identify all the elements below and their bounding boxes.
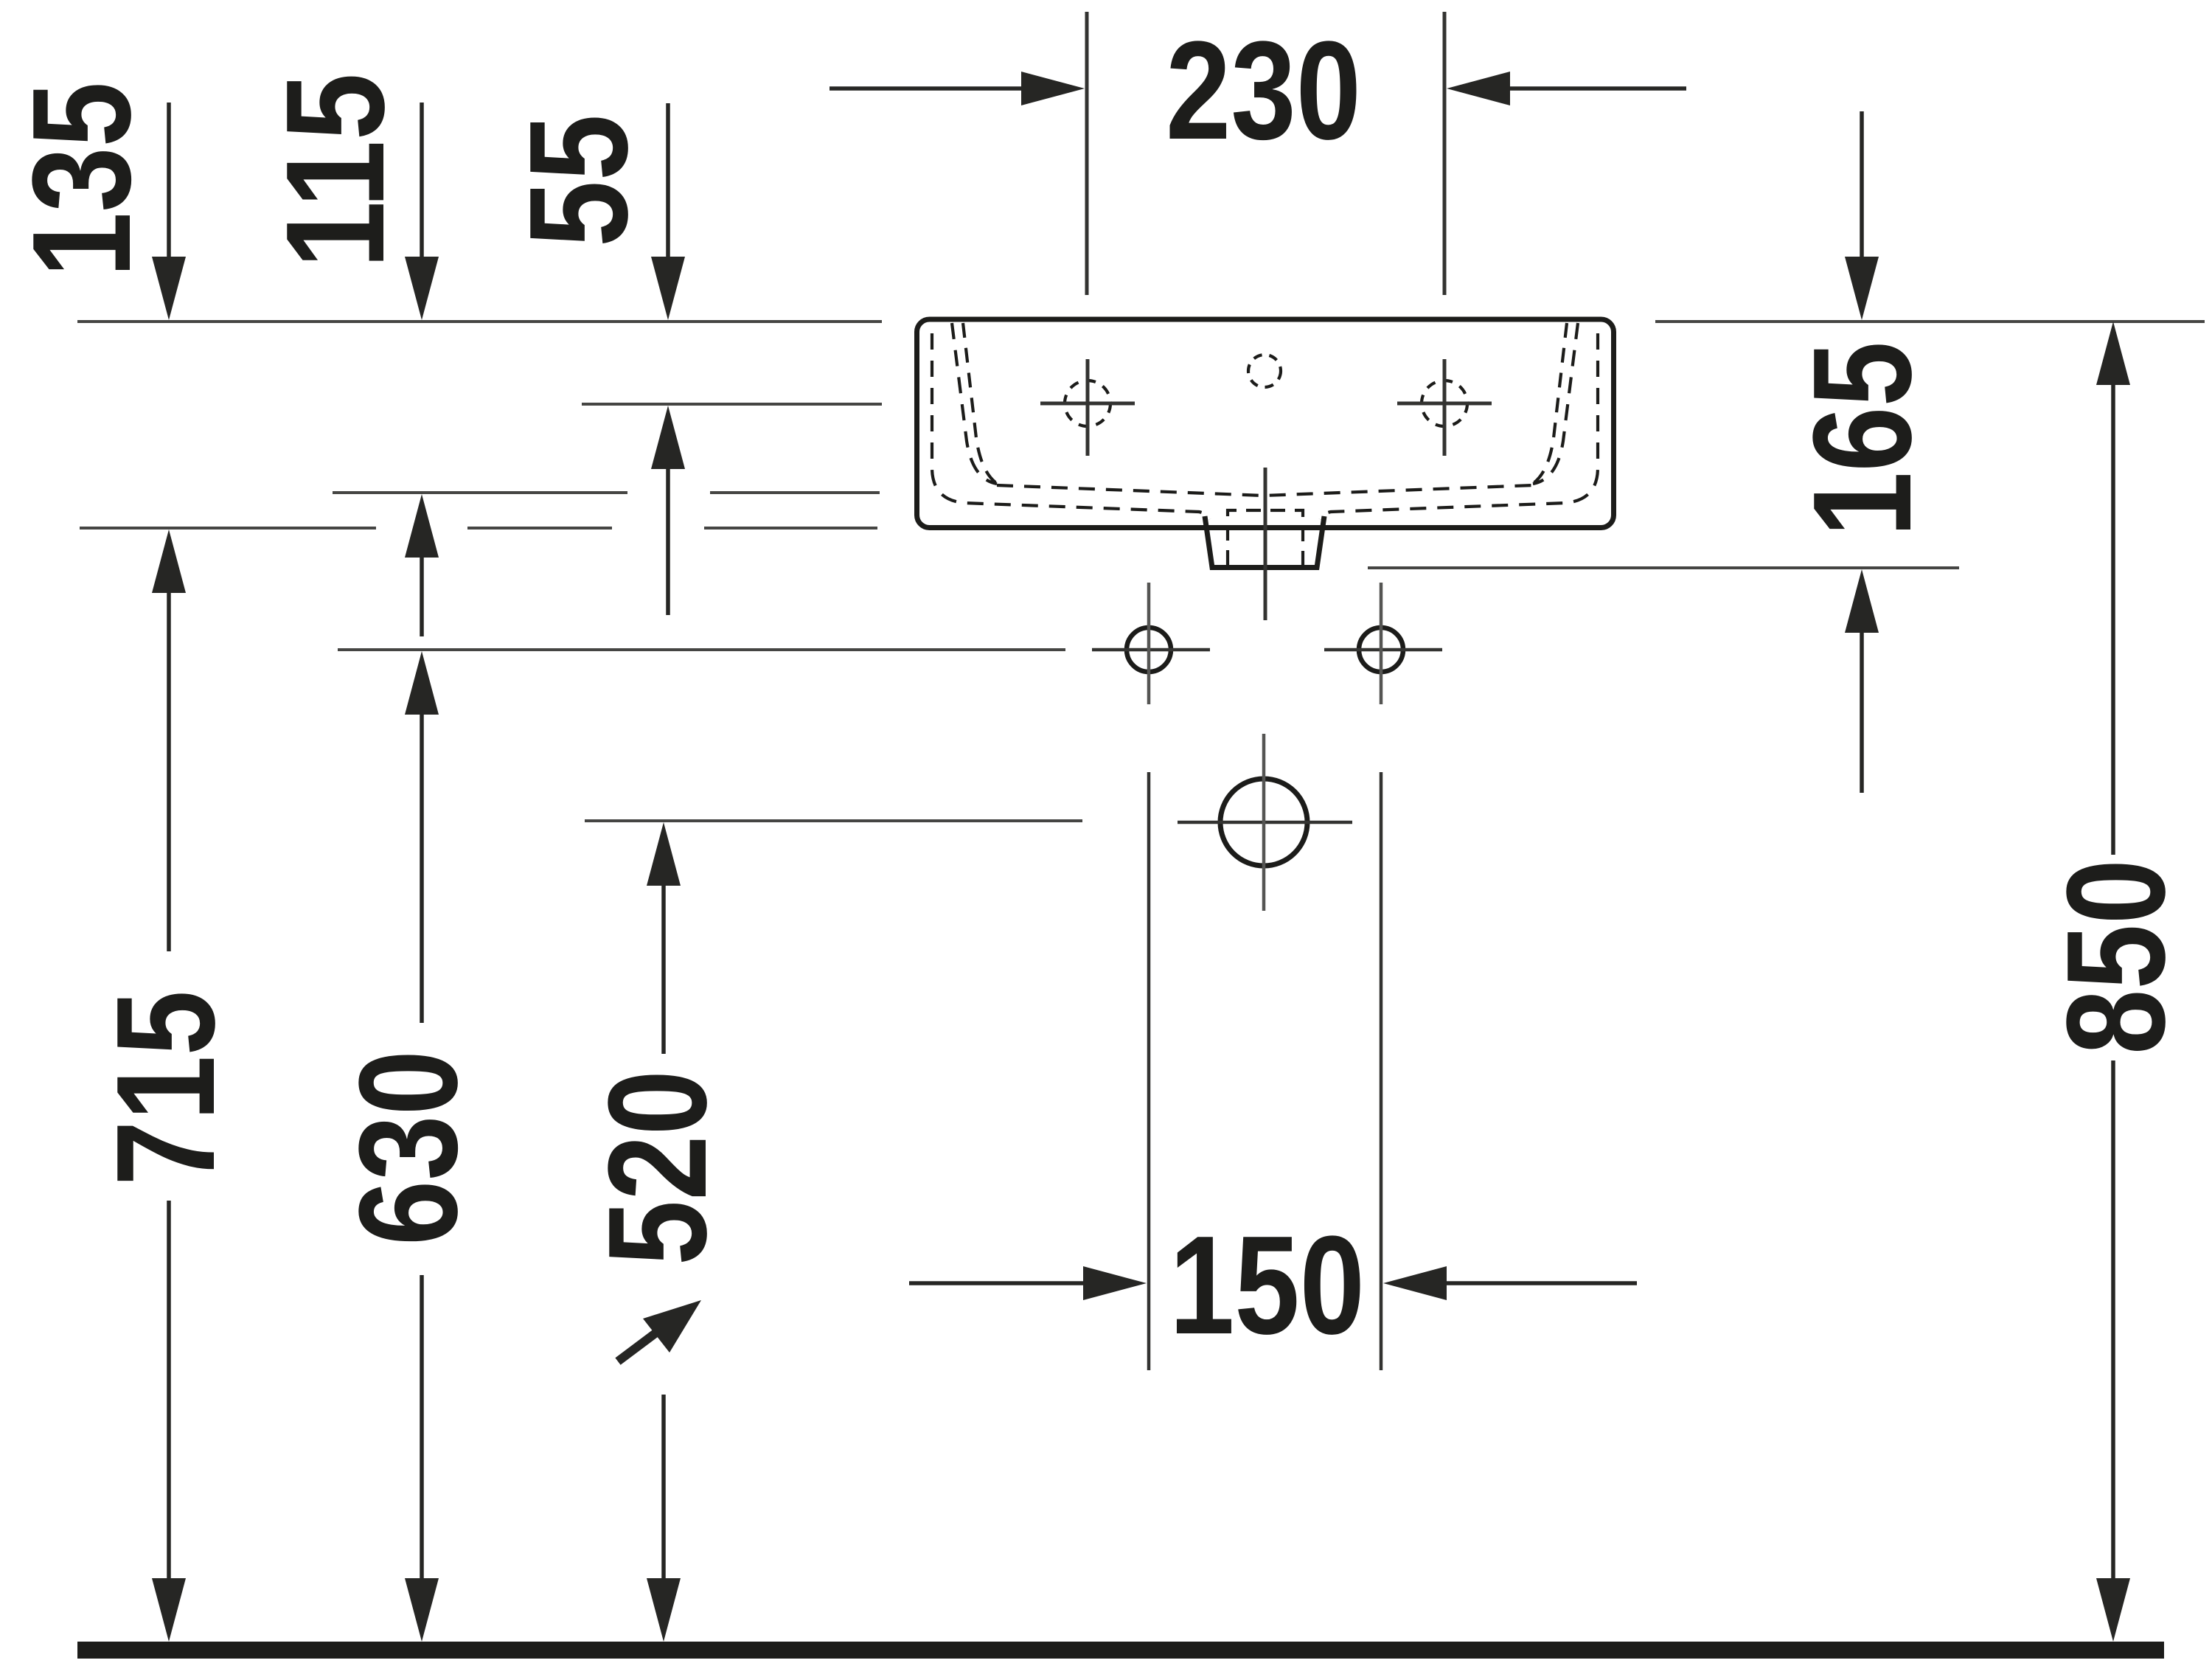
dashed drain pipe inside sleeve: [1228, 510, 1303, 565]
dim 150: right extension line: [1380, 772, 1383, 1370]
dim 115: top down-arrow: [405, 257, 439, 320]
overflow hole dashed circle: [1248, 355, 1281, 387]
dim 230: left arrow: [1021, 72, 1085, 105]
dim 115: bottom up-arrow: [405, 494, 439, 558]
dim 630: dimension line, up-arrow at mounting-hole line, down-arrow at floor: [405, 651, 439, 715]
drain bottom extension line (165 dim target): [1368, 566, 1959, 569]
basin interior dashed contour: right wall inner pair: [1533, 323, 1578, 484]
svg-text:165: 165: [1784, 341, 1941, 537]
siphon outlet circle + crosshair: [1220, 779, 1307, 866]
basin interior dashed bottom, upper line: [997, 485, 1533, 496]
svg-text:135: 135: [4, 82, 160, 277]
drain centreline: [1264, 468, 1267, 620]
wall reference line (left segment): [77, 320, 882, 323]
basin interior dashed contour: left wall inner pair: [952, 323, 997, 484]
drain sleeve trapezoid below basin: [1205, 516, 1324, 568]
dim 230: left extension line: [1085, 12, 1089, 295]
svg-text:715: 715: [88, 990, 244, 1186]
dim 150: left arrow: [1083, 1266, 1147, 1300]
dim 150: left extension line: [1147, 772, 1151, 1370]
faucet-centre extension line (55 dim target): [582, 403, 882, 406]
diagonal slope arrow: [618, 1300, 701, 1361]
svg-text:55: 55: [501, 114, 657, 247]
basin bottom extension line (135 / 715 dim target): [80, 527, 376, 530]
dim 55: bottom up-arrow: [651, 406, 685, 469]
dim 230: right extension line: [1443, 12, 1447, 295]
svg-text:115: 115: [257, 73, 414, 268]
dim 55: top down-arrow: [651, 257, 685, 320]
svg-text:850: 850: [2038, 859, 2194, 1055]
dim 520: dimension line, up-arrow at siphon line, down-arrow at floor: [647, 822, 681, 886]
svg-text:150: 150: [1169, 1207, 1365, 1364]
dim 150: right arrow: [1383, 1266, 1447, 1300]
basin interior dashed contour: right wall outer: [1320, 333, 1598, 519]
floor line: [77, 1642, 2164, 1659]
faucet hole right: dashed circle + crosshair: [1422, 381, 1467, 426]
dim 230: right arrow: [1447, 72, 1510, 105]
svg-text:520: 520: [580, 1070, 736, 1266]
svg-text:230: 230: [1166, 13, 1361, 169]
mounting-hole centre extension line (630 dim target): [338, 648, 1065, 651]
washbasin outer body: [917, 319, 1614, 528]
dim 715: dimension line, up-arrow at basin bottom line, down-arrow at floor: [152, 530, 186, 593]
mounting hole left: circle + crosshair: [1127, 628, 1171, 672]
dim 850: dimension line with arrows at wall line and floor: [2096, 322, 2130, 385]
siphon centre extension line (520 dim target): [585, 819, 1082, 822]
svg-text:630: 630: [330, 1050, 487, 1246]
mounting hole right: circle + crosshair: [1359, 628, 1403, 672]
115 dim target extension line: [333, 491, 627, 494]
faucet hole left: dashed circle + crosshair: [1065, 381, 1110, 426]
dim 165: bottom up-arrow: [1845, 569, 1879, 633]
dim 135: top down-arrow: [152, 257, 186, 320]
dim 165: top down-arrow: [1845, 257, 1879, 320]
wall reference line (right segment): [1655, 320, 2205, 323]
basin interior dashed contour: left wall outer: [932, 333, 1210, 519]
